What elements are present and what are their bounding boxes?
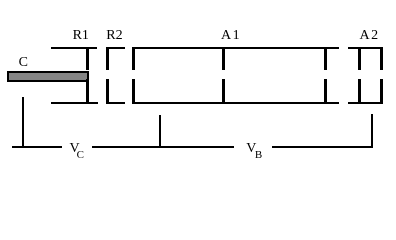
anode A1 top right tick [324, 47, 327, 71]
anode A2 top plate [348, 47, 383, 49]
anode A2 top right tick [380, 47, 383, 71]
cathode C label [19, 56, 28, 70]
electrode R1 bottom tick [86, 79, 89, 104]
anode A2 bottom plate [348, 102, 383, 104]
anode A2 bottom left tick [358, 79, 361, 104]
electrode R1 top plate [51, 47, 97, 49]
anode A1 top middle tick [222, 47, 225, 71]
electrode R1 label [73, 29, 89, 43]
wire: VB rail riser under A1 [159, 115, 161, 148]
anode A1 top left tick [132, 47, 135, 71]
electrode R2 bottom vertical [106, 79, 109, 104]
wire: bottom rail left segment [12, 146, 62, 148]
wire: bottom rail right segment [272, 146, 373, 148]
supply label VC [70, 142, 87, 156]
wire: A2 lead down to VB rail [371, 114, 373, 149]
electrode R2 top vertical [106, 47, 109, 70]
electrode R2 top tick [106, 47, 125, 49]
anode A1 bottom right tick [324, 79, 327, 104]
electrode R1 bottom plate [51, 102, 98, 104]
anode A2 label [360, 29, 380, 43]
cathode C bar [7, 71, 89, 82]
electrode R2 bottom tick [106, 102, 125, 104]
supply label VB [246, 142, 263, 156]
electrode R2 label [106, 29, 122, 43]
anode A1 label [221, 29, 241, 43]
anode A1 bottom plate [132, 102, 339, 104]
anode A1 bottom left tick [132, 79, 135, 104]
anode A2 top left tick [358, 47, 361, 71]
anode A1 top plate [132, 47, 339, 49]
wire: cathode lead down to VC rail [22, 97, 24, 149]
anode A2 bottom right tick [380, 79, 383, 104]
anode A1 bottom middle tick [222, 79, 225, 104]
wire: bottom rail middle segment [92, 146, 235, 148]
electrode R1 top tick [86, 47, 89, 71]
